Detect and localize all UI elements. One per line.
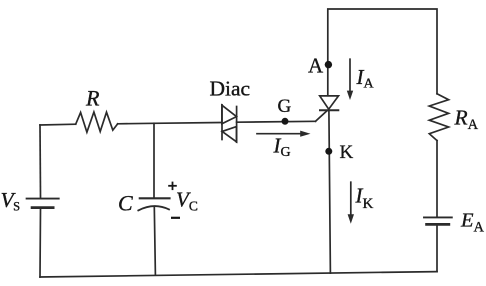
svg-text:A: A <box>308 53 324 77</box>
svg-text:IG: IG <box>273 134 291 161</box>
wire left rail lower <box>39 209 42 277</box>
arrow IG <box>257 131 311 137</box>
svg-text:Diac: Diac <box>210 77 251 101</box>
diac <box>222 105 237 142</box>
capacitor C <box>138 198 169 210</box>
node K <box>325 148 332 155</box>
svg-text:R: R <box>85 86 100 111</box>
arrow IK <box>348 182 354 224</box>
svg-text:VS: VS <box>1 188 21 214</box>
wire left rail upper <box>39 125 42 198</box>
node G <box>282 118 289 125</box>
thyristor SCR gate diagonal <box>316 111 328 122</box>
node A <box>325 61 332 68</box>
svg-text:K: K <box>340 142 354 163</box>
capacitor C bottom lead <box>154 207 155 275</box>
capacitor C top lead <box>153 123 155 197</box>
wire R to capacitor node <box>118 122 154 125</box>
svg-text:C: C <box>118 191 133 216</box>
wire left horizontal to R <box>40 123 76 126</box>
svg-text:RA: RA <box>454 106 479 134</box>
arrow IA <box>347 59 353 100</box>
svg-text:VC: VC <box>176 188 198 214</box>
svg-text:EA: EA <box>460 210 485 236</box>
wire cathode lead <box>329 110 331 273</box>
thyristor SCR cathode bar <box>320 109 338 111</box>
battery VS <box>27 199 59 208</box>
wire bottom rail <box>40 272 437 277</box>
wire right rail lower <box>436 225 438 271</box>
thyristor SCR triangle <box>320 96 339 109</box>
wire right rail mid <box>436 141 438 217</box>
svg-text:G: G <box>278 96 292 117</box>
wire top rail <box>328 9 437 96</box>
resistor R <box>76 112 118 132</box>
svg-text:IK: IK <box>355 184 374 213</box>
resistor RA <box>429 94 448 141</box>
wire capacitor node to diac <box>154 122 221 125</box>
wire diac to gate node G <box>237 120 316 123</box>
battery EA <box>424 217 452 224</box>
label minus <box>171 217 180 219</box>
label plus <box>168 182 177 191</box>
svg-text:IA: IA <box>356 65 375 92</box>
